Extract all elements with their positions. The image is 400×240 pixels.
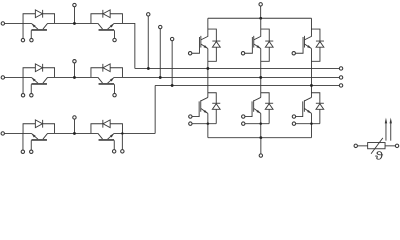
terminal phase 2 bbox=[339, 76, 342, 79]
terminal row3 gate right bbox=[112, 150, 115, 153]
terminal row2 emitter left bbox=[1, 76, 4, 79]
thermistor R1 bbox=[354, 138, 399, 160]
IGBT module Q2 row1 right (mirrored) bbox=[91, 10, 123, 31]
junction row3 aux right bbox=[121, 132, 123, 134]
junction leg2 line2 bbox=[259, 76, 262, 79]
terminal tap B bbox=[159, 25, 162, 77]
terminal row1 gate left bbox=[30, 38, 33, 41]
terminal row3 collector top bbox=[73, 116, 76, 134]
junction tap A on line 1 bbox=[147, 67, 150, 70]
temperature arrows bbox=[385, 118, 392, 141]
wire row3 collector middle bbox=[48, 132, 98, 134]
wire phase drop leg 1 bbox=[207, 49, 209, 98]
terminal row1 emitter left bbox=[1, 22, 4, 25]
terminal phase 3 bbox=[339, 84, 342, 87]
node W phase line 3 bbox=[155, 85, 339, 133]
junction leg1 line1 bbox=[206, 67, 209, 70]
IGBT U4 bottom leg 1 bbox=[189, 93, 221, 138]
IGBT module Q4 row2 right (mirrored) bbox=[91, 64, 123, 85]
wire row2 aux emitter stub bbox=[22, 77, 24, 93]
wire DC- bus bbox=[208, 137, 312, 139]
IGBT module Q1 row1 left bbox=[23, 10, 54, 31]
wire phase drop leg 2 bbox=[260, 49, 262, 98]
wire row3 emitter right bbox=[114, 132, 155, 134]
node U phase line 1 bbox=[135, 67, 339, 69]
wire DC+ bus bbox=[208, 17, 312, 19]
wire row2 gate stub right bbox=[114, 85, 116, 94]
wire row1 emitter bbox=[5, 22, 32, 24]
terminal row2 gate left bbox=[30, 94, 33, 97]
wire row2 collector middle bbox=[48, 76, 98, 78]
terminal row3 aux emitter right bbox=[121, 150, 124, 153]
terminal row2 gate right bbox=[113, 93, 116, 96]
wire phase drop leg 3 bbox=[310, 49, 312, 98]
wire row1 aux emitter stub bbox=[22, 23, 24, 38]
wire row3 aux emitter stub bbox=[22, 133, 24, 149]
junction row1 collector bbox=[73, 22, 76, 25]
IGBT U1 top leg 1 bbox=[188, 18, 220, 61]
wire row1 emitter right to bridge bbox=[114, 23, 135, 68]
node V phase line 2 bbox=[114, 76, 339, 78]
IGBT U6 bottom leg 3 bbox=[292, 93, 324, 138]
IGBT module Q6 row3 right (mirrored) bbox=[91, 120, 123, 141]
junction DC- bus bbox=[259, 136, 262, 139]
wire row3 emitter bbox=[5, 132, 32, 134]
IGBT module Q5 row3 left bbox=[23, 120, 54, 141]
wire row3 gate stub left bbox=[30, 141, 32, 150]
terminal tap A bbox=[147, 13, 150, 69]
junction DC+ bus bbox=[259, 17, 262, 20]
wire row3 gate stub right bbox=[113, 141, 115, 150]
wire row3 aux emitter right stub bbox=[121, 133, 123, 149]
junction row2 collector bbox=[73, 76, 76, 79]
terminal row2 aux emitter bbox=[21, 94, 24, 97]
IGBT U3 top leg 3 bbox=[292, 18, 324, 61]
IGBT U2 top leg 2 bbox=[241, 18, 273, 61]
junction tap C on line 3 bbox=[171, 84, 174, 87]
junction leg3 line3 bbox=[310, 84, 313, 87]
wire row2 gate stub left bbox=[30, 85, 32, 94]
IGBT module Q3 row2 left bbox=[23, 64, 54, 85]
terminal row3 gate left bbox=[30, 150, 33, 153]
wire row1 collector middle bbox=[48, 22, 98, 24]
terminal phase 1 bbox=[339, 67, 342, 70]
terminal row2 collector top bbox=[73, 60, 76, 78]
terminal row1 gate right bbox=[113, 38, 116, 41]
terminal row1 collector top bbox=[73, 3, 76, 23]
terminal row1 aux emitter bbox=[21, 38, 24, 41]
wire row1 gate stub right bbox=[114, 31, 116, 39]
terminal row3 emitter left bbox=[1, 132, 4, 135]
wire row2 emitter bbox=[5, 76, 32, 78]
terminal tap C bbox=[170, 37, 173, 85]
terminal row3 aux emitter bbox=[21, 150, 24, 153]
junction tap B on line 2 bbox=[159, 76, 162, 79]
terminal DC- bbox=[259, 138, 262, 158]
IGBT U5 bottom leg 2 bbox=[242, 93, 274, 138]
wire row1 gate stub left bbox=[30, 31, 32, 39]
junction row3 collector bbox=[73, 132, 76, 135]
terminal DC+ bbox=[259, 3, 262, 19]
